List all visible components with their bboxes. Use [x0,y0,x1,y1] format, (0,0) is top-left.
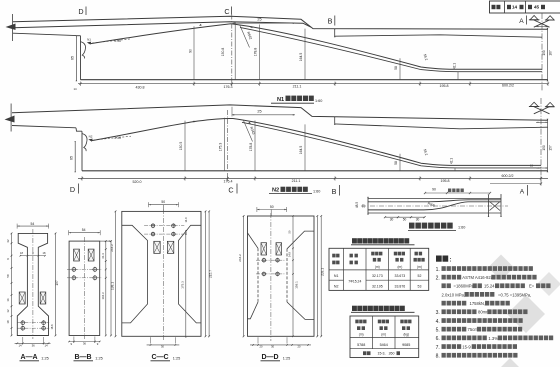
svg-text:58: 58 [394,66,398,70]
svg-text:198.1: 198.1 [110,282,114,290]
note line 2b [442,283,451,288]
N1 view: 1:10 reference dashed line [89,39,131,44]
plan detail: bottom dim line 30 50 30 [385,216,425,218]
N1 view: beam end face [80,36,82,80]
svg-text:ASTM A416-92a: ASTM A416-92a [462,275,493,280]
N2 view: left break line [10,104,12,132]
svg-text:1:25: 1:25 [173,356,180,360]
svg-text:203.1: 203.1 [321,268,325,276]
svg-text:3.: 3. [436,310,440,316]
svg-text:42.1: 42.1 [452,63,456,69]
section C-C left dim [115,211,117,336]
table 2 bottom merged row [363,351,371,355]
svg-text:90: 90 [188,49,192,53]
section A-A right dim [55,233,57,335]
section A-A anchor plate N2 [40,292,46,304]
section C-C: top dim 50 [149,204,179,206]
section D-D anchor plate N1 [261,243,267,255]
section A-A left dim chain [11,233,13,335]
section D-D left dim [243,216,245,336]
N2 view: top-slab soffit right [335,124,548,129]
N2 view: slab start step at B [334,118,336,124]
N1 radius leader line [240,25,250,48]
svg-text:E=: E= [529,284,535,289]
section D-D right dim outer [320,216,322,336]
N1 right end dim line [547,29,549,79]
N1 view: deck soffit line L2 [13,22,311,28]
svg-text:(m): (m) [417,265,422,269]
N2 right bottom small dim [536,167,548,169]
svg-text:B: B [328,17,333,26]
section A-A anchor plate N1 [19,292,25,304]
section D-D inner void [248,233,259,248]
svg-text:8.: 8. [436,354,440,360]
plan detail: anchor cross mark [490,202,501,211]
svg-text:30: 30 [271,345,275,349]
section B-B bottom dims [73,337,75,344]
section B-B outline [69,241,100,335]
svg-text:2.0x10 MPa,: 2.0x10 MPa, [442,292,466,297]
svg-text:15-9: 15-9 [462,345,471,350]
svg-text:C—C: C—C [151,354,168,361]
table 2 grid [350,316,419,358]
svg-text:195.8: 195.8 [440,84,449,88]
svg-text:6.: 6. [436,336,440,342]
N1 tendon duct lower line [240,27,542,71]
N1 vertical dim at x305 [304,29,306,80]
N2 tendon duct lower line [242,122,541,168]
section D-D outline [248,216,315,336]
title block border [490,1,560,13]
table 1 title 箱梁预应力钢绞线明细表 [352,238,409,243]
N2 view: end-depth dim 65 [74,143,76,171]
svg-text:N1: N1 [277,97,284,103]
svg-text:14.9: 14.9 [184,217,188,223]
N2 vertical dim at x255 [254,121,256,171]
section A-A bottom dims [22,337,24,345]
N1 pier centerline dash-dot [541,13,543,92]
title block text 图号 [492,5,501,9]
svg-text:15-3,: 15-3, [378,352,386,356]
svg-text:75cm: 75cm [468,327,479,332]
svg-text:14: 14 [512,5,518,10]
section D-D bottom dims [257,337,259,343]
watermark diamond 3 [507,295,545,333]
plan detail: top dim line 90 [425,192,490,194]
plan detail title [409,223,453,229]
svg-text:197: 197 [55,280,59,286]
svg-text:(m): (m) [381,333,386,337]
svg-text:N2: N2 [272,188,279,194]
svg-text:33.673: 33.673 [395,274,406,278]
svg-text:15: 15 [530,163,534,167]
svg-text:(kg): (kg) [403,333,409,337]
svg-text:1:60: 1:60 [315,99,322,103]
svg-text:31.4: 31.4 [101,253,105,259]
N1 bottom dimension chain [78,83,548,85]
plan detail: duct upper line [368,200,501,202]
plan detail: centerline dash-dot [361,205,508,207]
svg-text:14: 14 [18,344,22,348]
table 1 grid [329,248,429,290]
svg-text:178.8: 178.8 [254,48,258,57]
svg-text:58: 58 [394,161,398,165]
svg-text:244.2: 244.2 [110,244,114,252]
N2 view: left break arrow [5,116,15,123]
N1 view: pier bearing symbol at right [530,16,538,20]
svg-text:45: 45 [534,5,540,10]
svg-text:50: 50 [270,205,274,209]
svg-text:A—A: A—A [20,354,37,361]
svg-text:14.9: 14.9 [288,251,292,257]
svg-text:54: 54 [31,222,35,226]
section D-D anchor plate N2 [276,243,282,255]
N2 view: top dim 25 near C [232,114,295,116]
svg-text:18: 18 [6,320,10,324]
svg-text:C: C [228,186,233,195]
N2 view: soffit step at beam end [76,128,82,131]
svg-text:30: 30 [416,218,420,222]
svg-text:1758kN,: 1758kN, [470,301,486,306]
svg-text:176.3: 176.3 [224,85,233,89]
plan detail: outer top line [368,198,501,200]
svg-text:30: 30 [390,218,394,222]
N1 view: cantilever soffit line L3 left [13,33,76,35]
svg-text:178.8: 178.8 [249,143,253,152]
svg-text:164.5: 164.5 [299,53,303,62]
N2 vertical dim at x185 [184,121,186,171]
svg-text:54: 54 [82,228,86,232]
N1 section line C dash-dot [231,15,233,87]
N1 right top small dim [536,26,548,28]
svg-text:B—B: B—B [74,354,91,361]
svg-text:260: 260 [389,352,395,356]
title block text 第14页 [507,5,511,9]
svg-text:12: 12 [6,309,10,313]
svg-text:150: 150 [542,145,546,151]
svg-text:36: 36 [83,342,87,346]
N1 vertical dim at x259 [259,25,261,80]
section C-C outline [122,211,201,336]
section C-C duct circles [144,225,184,227]
N1 view: left break line [12,14,14,41]
watermark diamond 4 [500,358,520,367]
section B-B: top width dim 54 [69,232,101,234]
table 2 header texts [355,320,366,324]
N2 radius leader [244,121,253,142]
svg-text:2.: 2. [436,276,440,282]
svg-text:16: 16 [6,298,10,302]
plan detail: duct lower line [368,202,501,210]
svg-text:158.1: 158.1 [295,281,299,289]
N2 auxiliary dim line right [490,183,541,185]
plan detail: left width dim [367,197,369,199]
svg-text:N2: N2 [89,135,93,139]
N2 vertical dim at x224 [223,118,225,171]
title block divider 2 [525,1,527,13]
svg-text:30: 30 [161,345,165,349]
svg-text:4.: 4. [436,319,440,325]
svg-text:65: 65 [69,156,73,160]
N2 right end dim line [547,120,549,171]
svg-text:50: 50 [403,218,407,222]
svg-text:(m): (m) [359,333,364,337]
title block text 共45页 [528,5,532,9]
svg-text:32.173: 32.173 [372,274,383,278]
plan detail: outer bottom line [368,212,501,214]
section B-B anchor plate N1 [74,249,80,261]
svg-text:C: C [224,7,229,16]
section B-B right leader [100,240,112,242]
N2 bearing symbol above right end [530,102,538,106]
N1 view: top dim 25 near C [233,22,296,24]
N1 view: girder slab start step at B [334,30,336,37]
watermark diamond 2 [537,272,560,296]
svg-text:175.3: 175.3 [180,281,184,289]
svg-text:150: 150 [542,50,546,56]
svg-text:195.8: 195.8 [441,179,450,183]
section C-C bottom dims [150,337,152,343]
section B-B right dim chain inner [105,241,107,335]
svg-text:20: 20 [362,204,366,208]
svg-text:1:60: 1:60 [313,190,320,194]
N1 view: beam bottom line [81,79,549,81]
svg-text:B: B [332,187,337,196]
section C-C inner void [122,225,148,323]
N2 view: cantilever soffit line left [12,126,76,128]
svg-text:215.7: 215.7 [209,270,213,278]
section A-A duct circles [17,322,49,324]
svg-text:A: A [520,189,525,196]
svg-text:D—D: D—D [261,354,278,361]
svg-text:58: 58 [6,274,10,278]
svg-text:9085: 9085 [402,343,410,347]
svg-text:14: 14 [73,87,77,91]
section A-A centerline [32,229,34,339]
svg-text:N1: N1 [334,274,339,278]
N2 view: deck top line [12,105,548,120]
svg-text:164.5: 164.5 [299,146,303,155]
svg-text:157: 157 [549,145,553,151]
section B-B centerline [83,237,85,339]
svg-text:5.: 5. [436,328,440,334]
svg-text:5464: 5464 [380,343,388,347]
notes header 附注 [436,256,448,262]
note line 2d [442,301,467,306]
svg-text:=0.75 =1395MPa,: =0.75 =1395MPa, [498,292,531,297]
svg-text:33.876: 33.876 [395,285,406,289]
svg-text:600.2/2: 600.2/2 [502,174,514,178]
N1 vertical dim at x400 [399,58,401,79]
N2 vertical dim at x455 [454,168,456,171]
svg-text:18.6: 18.6 [50,324,54,330]
section B-B right dim outer [110,241,112,335]
svg-text:D: D [70,185,75,194]
section D-D centerline [270,213,272,341]
svg-text:104.3: 104.3 [101,292,105,299]
svg-text:52: 52 [418,274,422,278]
N2 view: beam end face [81,131,83,171]
N1 tendon curve [90,24,542,70]
svg-text:90: 90 [432,188,436,192]
section A-A: top width dim 54 [17,225,49,227]
N2 view: beam bottom line [82,170,548,172]
svg-text:A: A [519,18,524,25]
N1 vertical dim at x235 [234,22,236,80]
section D-D right dim inner [316,216,318,336]
section D-D: top dim 50 [257,209,287,211]
N2 bottom dimension chain [78,177,548,179]
N1 view: deck top line L1 [13,16,548,29]
N2 tendon curve [91,118,541,165]
svg-text:1:25: 1:25 [95,356,102,360]
plan detail: right anchor line 1 [488,196,490,217]
svg-text:150.5: 150.5 [179,142,183,151]
svg-text:65: 65 [71,56,75,60]
N2 vertical dim at x305 [304,124,306,170]
N1 view: tendon anchor arrow [87,42,91,45]
N1 vertical dim at x194 [193,26,195,79]
svg-text:211.1: 211.1 [292,179,301,183]
table 1 header texts [332,254,339,258]
N1 view: end-depth dim line 65 [75,37,77,80]
svg-text:167: 167 [549,50,553,56]
svg-text:53: 53 [418,285,422,289]
N2 right top small dim [536,121,548,123]
svg-text:32: 32 [6,239,10,243]
N2 tendon anchor arrow [88,139,92,142]
table 2 title 箱梁预应力钢材数量表 [352,306,405,311]
svg-text:7.: 7. [436,345,440,351]
N1 tendon tangent arrows [199,24,202,26]
svg-text:244.2: 244.2 [238,254,242,262]
svg-text:1.3%: 1.3% [488,336,498,341]
watermark diamond 1 [488,255,514,281]
section B-B anchor plate N2 [88,249,94,261]
N2 section line C dash-dot [227,110,229,181]
section A-A outline [17,233,48,335]
svg-text:430.8: 430.8 [136,86,145,90]
svg-text:176.4: 176.4 [224,180,233,184]
plan detail: right anchor line 2 [500,196,502,217]
N2 tendon tangent arrows [192,121,195,123]
N2 view: anchor tooth block [82,134,87,152]
svg-text:25: 25 [257,17,261,21]
svg-text:25: 25 [257,110,261,114]
svg-text:7Φ15.24: 7Φ15.24 [348,279,361,283]
section C-C anchor plate N2 [167,241,173,253]
svg-text:175.3: 175.3 [218,143,222,152]
section B-B duct circles [67,268,102,270]
section D-D inner dim line [292,216,294,336]
svg-text:1:25: 1:25 [41,356,48,360]
svg-text:(m): (m) [375,265,380,269]
svg-text:D: D [78,7,83,16]
svg-text:1:60: 1:60 [458,225,465,229]
svg-text:150.8: 150.8 [221,48,225,57]
svg-text:N1: N1 [87,38,91,42]
svg-text:N2: N2 [334,285,339,289]
svg-text:1:25: 1:25 [283,356,290,360]
N1 view: girder top-slab soffit right [335,35,542,37]
section D-D duct circles [256,259,286,261]
plan detail: top label 斜率渐变段 [448,189,464,193]
N1 vertical dim at x458 [457,72,459,80]
svg-text:14: 14 [44,344,48,348]
svg-text:5788: 5788 [357,343,365,347]
plan detail: left end edge [367,197,369,215]
section C-C anchor plate N1 [154,241,160,253]
svg-text:520.0: 520.0 [133,180,142,184]
N2 1:10 dashed reference [90,136,131,140]
svg-text::: : [450,257,452,263]
N1 view: beam end anchor tooth block [81,42,86,59]
svg-text:600.2/2: 600.2/2 [502,83,514,87]
svg-text:1.: 1. [436,267,440,273]
N2 vertical dim at x400 [399,154,401,171]
title block divider 1 [504,1,506,13]
section C-C centerline [163,209,165,341]
svg-text:42.1: 42.1 [449,158,453,164]
svg-text:50: 50 [161,200,165,204]
N1 view: left break arrow [6,24,16,31]
section C-C inner height dim [185,234,187,336]
svg-text:32.195: 32.195 [372,285,383,289]
svg-text:=1860MPa: =1860MPa [454,284,475,289]
svg-text:211.1: 211.1 [293,84,302,88]
svg-text:(m): (m) [398,265,403,269]
svg-text:15.24: 15.24 [484,284,495,289]
svg-text:48.5: 48.5 [355,202,359,208]
N2 pier centerline dash-dot [540,98,542,186]
svg-text:36: 36 [32,343,36,347]
section C-C right dim outer [208,211,210,336]
section C-C right dim inner [205,211,207,336]
